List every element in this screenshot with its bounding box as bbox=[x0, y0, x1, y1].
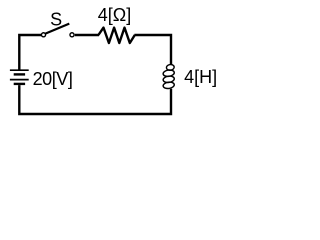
wire: resistor to top-right corner down to inductor bbox=[134, 35, 171, 65]
switch S right terminal bbox=[70, 33, 74, 37]
svg-text:20[V]: 20[V] bbox=[33, 69, 73, 89]
svg-text:4[Ω]: 4[Ω] bbox=[98, 5, 131, 25]
switch S blade (open) bbox=[45, 24, 69, 34]
battery V1 plate long bottom bbox=[10, 79, 29, 81]
switch S left terminal bbox=[41, 33, 45, 37]
wire: switch right terminal to resistor bbox=[75, 34, 99, 36]
inductor L1 loop 3 bbox=[163, 75, 175, 83]
svg-text:S: S bbox=[50, 9, 62, 29]
inductor L1 loop 4 bbox=[163, 81, 175, 89]
inductor L1 loop 2 bbox=[163, 69, 175, 77]
inductor L1 loop 1 (entry curl) bbox=[166, 64, 175, 71]
battery V1 plate long top bbox=[10, 69, 29, 71]
resistor R1 zigzag bbox=[98, 28, 134, 43]
wire top-left: switch to corner, down to battery bbox=[19, 35, 41, 70]
battery V1 plate short bottom bbox=[14, 83, 25, 85]
wire bottom loop: battery down, bottom, up right side to inductor bbox=[19, 85, 171, 114]
svg-text:4[H]: 4[H] bbox=[184, 67, 217, 87]
battery V1 plate short top bbox=[14, 73, 25, 75]
